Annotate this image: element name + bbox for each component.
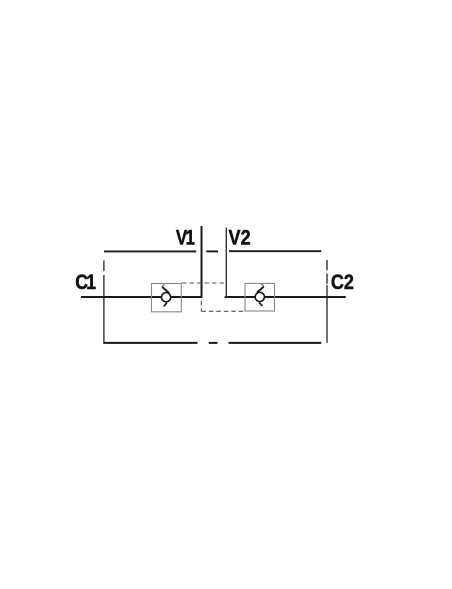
svg-text:C1: C1 xyxy=(75,271,96,295)
svg-text:C2: C2 xyxy=(331,271,354,295)
svg-text:V1: V1 xyxy=(176,225,195,249)
svg-text:V2: V2 xyxy=(229,226,251,250)
